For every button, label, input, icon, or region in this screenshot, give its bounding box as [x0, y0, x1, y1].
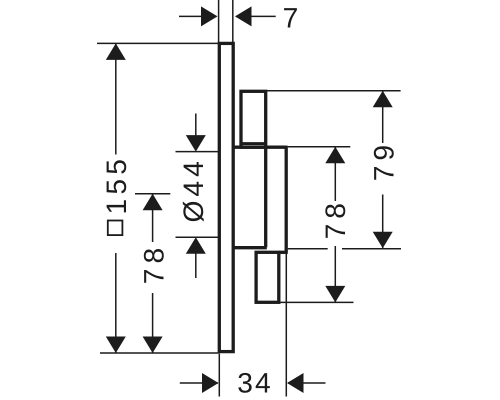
- square155 down arrow: [106, 337, 126, 354]
- 78 left up arrow: [143, 194, 163, 211]
- upper box (stop valve housing): [241, 91, 266, 147]
- lower box (connection): [256, 252, 279, 302]
- 78 left down arrow: [143, 337, 163, 354]
- 78 right top extension: [288, 146, 351, 148]
- svg-text:79: 79: [368, 140, 400, 181]
- svg-text:155: 155: [100, 155, 132, 215]
- square155 up arrow: [106, 43, 126, 60]
- dia44 up arrow: [186, 237, 206, 254]
- left extension down to 34: [218, 354, 220, 397]
- bottom extension (plate bottom): [100, 352, 219, 354]
- 34 dim shafts: [180, 382, 218, 384]
- center tick: [135, 193, 170, 195]
- label square symbol of 155: [108, 221, 123, 236]
- body left edge: [264, 147, 267, 247]
- svg-text:78: 78: [319, 198, 351, 239]
- 7-dim extension lines above plate: [218, 0, 220, 42]
- 79 up arrow: [373, 91, 393, 108]
- 78 right bottom tick: [280, 301, 354, 303]
- square155 dim line: [115, 43, 117, 154]
- square155 top extension: [97, 42, 219, 44]
- svg-text:Ø44: Ø44: [177, 157, 209, 222]
- plate (escutcheon side view): [219, 43, 233, 351]
- 78 right up arrow: [325, 147, 345, 164]
- 78 left dim line: [152, 194, 154, 242]
- 78 right dim line: [334, 147, 336, 201]
- 78 right down arrow: [325, 286, 345, 303]
- lower box top edge extension to body right edge: [279, 251, 288, 254]
- arrowheads: [106, 6, 393, 393]
- svg-text:78: 78: [137, 243, 169, 284]
- 7 dim shafts: [179, 15, 217, 17]
- body top edge: [233, 146, 286, 149]
- upper box inner step line: [241, 142, 266, 145]
- 79 dim line: [382, 91, 384, 143]
- right bottom extension (79 arrow line): [288, 248, 328, 250]
- dia44 arrow shafts: [195, 114, 197, 151]
- thin lines: [97, 0, 401, 397]
- 79 down arrow: [373, 232, 393, 249]
- dia44 ticks: [176, 151, 219, 153]
- right extension down to 34: [285, 253, 287, 397]
- dia44 down arrow: [186, 135, 206, 152]
- body bottom edge: [233, 246, 267, 249]
- 79 top extension: [267, 90, 401, 92]
- 7 right arrow (points left): [235, 6, 252, 26]
- svg-text:34: 34: [237, 367, 272, 399]
- svg-text:7: 7: [283, 1, 299, 33]
- 34 right arrow (points left): [287, 373, 304, 393]
- 34 left arrow (points right): [202, 373, 219, 393]
- body right edge: [285, 146, 288, 252]
- 7 left arrow (points right): [201, 6, 218, 26]
